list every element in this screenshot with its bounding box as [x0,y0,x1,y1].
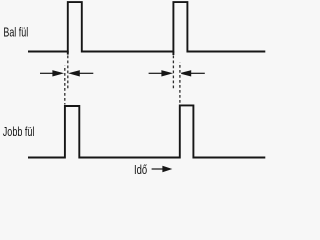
dashed line pair 1: from top pulse 1 left edge [67,56,69,91]
time axis arrow [152,167,171,172]
svg-text:Jobb fül: Jobb fül [3,124,35,139]
svg-text:Idő: Idő [134,162,147,177]
svg-text:Bal fül: Bal fül [3,25,28,40]
arrow pair 1 left (points right at dashed lines) [40,71,62,76]
top waveform (Bal fül) pulse train [28,2,265,51]
dashed line pair 1: from bottom pulse 1 left edge [64,66,66,105]
arrow pair 2 right (points left at dashed lines) [181,71,205,76]
dashed line pair 2: from top pulse 2 left edge [172,56,174,91]
tick below top baseline at pulse 1 left edge [67,52,69,55]
arrow pair 2 left (points right at dashed lines) [149,71,171,76]
dashed line pair 2: from bottom pulse 2 left edge [179,63,181,105]
bottom waveform (Jobb fül) pulse train [28,105,265,157]
tick below top baseline at pulse 2 left edge [172,52,174,56]
arrow pair 1 right (points left at dashed lines) [70,71,93,76]
